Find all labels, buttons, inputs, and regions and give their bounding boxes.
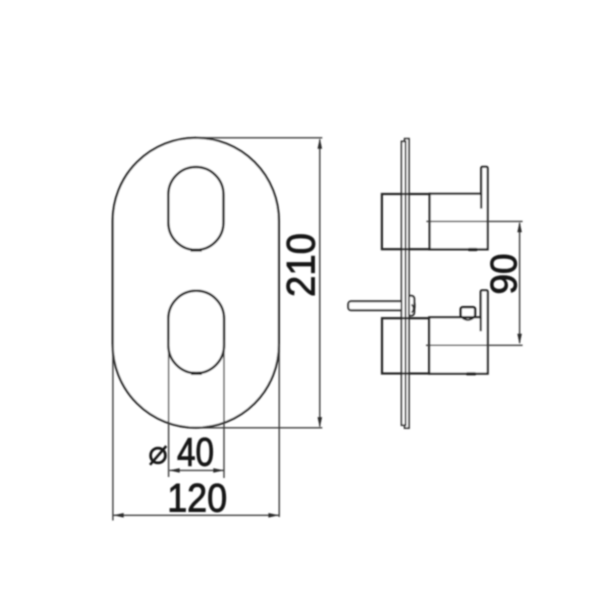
dimension symbol ø (diameter)	[151, 448, 166, 463]
svg-text:120: 120	[167, 477, 227, 521]
upper handle hole (ø40 stadium cutout)	[168, 167, 223, 250]
side view lower: blade inner edge line	[480, 317, 482, 331]
side view upper: handle with lever blade	[430, 167, 488, 250]
svg-text:90: 90	[484, 254, 525, 295]
extension line hole right (for ø40)	[223, 340, 225, 478]
side view: wall spout lever bar	[348, 301, 414, 310]
dimension line 90	[519, 223, 521, 343]
svg-text:40: 40	[177, 430, 214, 474]
side view: pipe boss bump on plate	[406, 296, 414, 316]
dimension line 120	[114, 514, 279, 516]
side view lower: bottom button tab	[466, 372, 476, 375]
notch at bottom of upper hole	[191, 249, 202, 252]
side view lower: valve body rect	[382, 318, 429, 373]
extension line plate right (for 120)	[278, 344, 280, 517]
lower handle hole (ø40 stadium cutout)	[168, 291, 224, 373]
side view upper: blade inner edge line	[480, 194, 482, 209]
extension line hole left (for ø40)	[168, 340, 170, 477]
notch at bottom of lower hole	[191, 372, 202, 375]
extension line top (plate top to 210 dim)	[196, 137, 322, 139]
side view lower: handle mid line / 90 extension	[426, 344, 523, 346]
extension line plate left (for 120)	[112, 344, 114, 521]
side view: lever bar tip arc inside boss	[412, 304, 414, 312]
side view: wall plate front bar	[402, 141, 406, 425]
side view upper: valve body rect	[382, 194, 430, 249]
dimension line 210	[319, 140, 321, 427]
side view upper: handle mid line / 90 extension	[426, 220, 522, 222]
front view escutcheon plate (120x210 stadium outline)	[113, 138, 279, 428]
side view upper: bottom button tab	[468, 248, 478, 251]
svg-text:210: 210	[280, 233, 324, 297]
side view lower: handle with lever blade	[429, 290, 488, 373]
dimension line ø40	[170, 469, 224, 471]
side view: wall plate rear bar	[405, 139, 409, 428]
side view lower: safety stop button on top	[462, 318, 473, 320]
extension line bottom (plate bottom to 210 dim)	[200, 427, 322, 429]
